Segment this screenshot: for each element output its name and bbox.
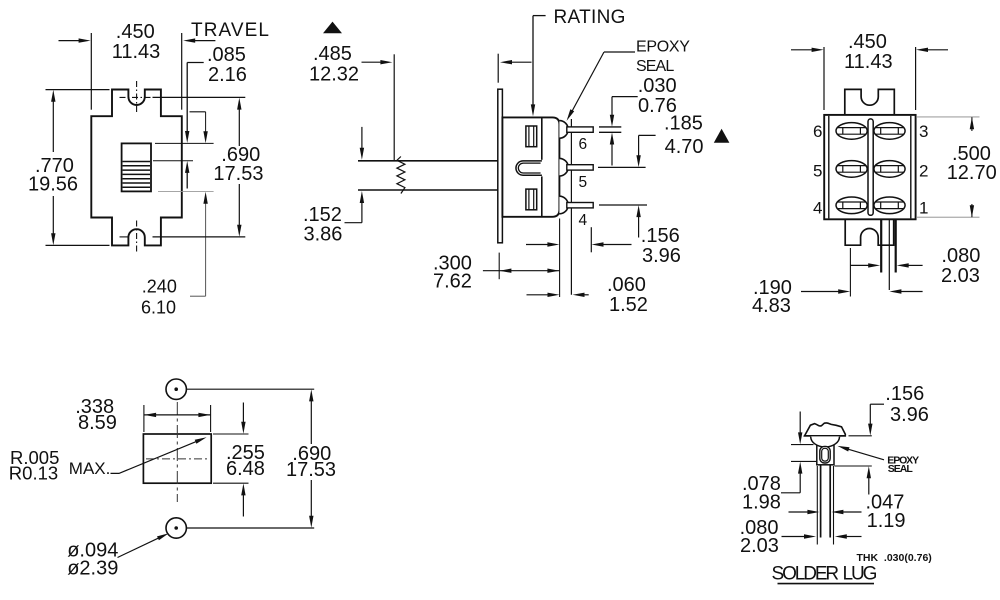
svg-text:17.53: 17.53	[213, 163, 263, 185]
svg-text:SEAL: SEAL	[636, 58, 674, 75]
hole dia leader	[118, 535, 165, 557]
handle top line	[358, 160, 498, 162]
epoxy seal bump pin5	[559, 158, 568, 176]
svg-text:RATING: RATING	[554, 7, 626, 28]
body divider line lower	[541, 176, 543, 216]
dim .485 left arrow	[362, 61, 382, 63]
dim .690 top extension	[153, 96, 246, 98]
svg-text:SOLDER: SOLDER	[772, 563, 839, 584]
svg-text:.085: .085	[207, 44, 246, 66]
mounting flange	[498, 89, 503, 243]
actuator slot inner	[518, 163, 540, 173]
svg-text:.240: .240	[142, 276, 177, 296]
dim .080L left arrow	[782, 536, 805, 538]
pin5 center extension	[598, 166, 646, 168]
hole bottom ext left	[791, 460, 817, 462]
svg-text:4: 4	[579, 212, 588, 229]
rear pin left	[880, 220, 882, 273]
dim .047 left arrow	[789, 511, 808, 513]
terminal ovals grid	[836, 123, 905, 214]
svg-text:5: 5	[813, 162, 822, 181]
svg-text:12.32: 12.32	[309, 63, 359, 85]
dim .190 right arrow	[900, 291, 923, 293]
epoxy mound	[805, 423, 846, 436]
dim .080r left arrow	[850, 264, 869, 266]
body face extension line	[559, 219, 561, 298]
dim .060 right arrow	[583, 294, 589, 296]
dim .185 upper arrow	[638, 135, 640, 155]
body divider line upper	[541, 117, 543, 159]
mound top ext right	[849, 435, 872, 437]
top hole centerline vertical	[136, 81, 138, 114]
svg-text:.156: .156	[641, 225, 680, 247]
dim .770 top extension line	[46, 89, 110, 91]
dim .030 bracket	[612, 96, 638, 98]
svg-text:4: 4	[813, 199, 822, 218]
mound base line	[804, 435, 846, 437]
hole top line right	[187, 388, 314, 390]
dim .255 upper arrow	[242, 403, 244, 423]
terminal pin 4	[567, 203, 593, 208]
dim .450r left ext	[823, 47, 825, 110]
slider bottom extension line	[158, 191, 214, 193]
svg-text:12.70: 12.70	[947, 162, 997, 184]
svg-text:5: 5	[579, 174, 588, 191]
svg-text:2.03: 2.03	[740, 535, 779, 557]
dim .030 upper arrow	[611, 97, 613, 116]
dim .240 leader tick	[190, 295, 206, 297]
dim .690 line upper	[238, 109, 240, 146]
handle bottom line	[358, 189, 498, 191]
dim .078 lower arrow	[799, 473, 801, 493]
dim .185 lower arrow	[638, 217, 640, 238]
dim .338 right ext	[210, 405, 212, 432]
cutout centerline vertical	[176, 402, 178, 502]
svg-text:R0.13: R0.13	[9, 463, 58, 484]
svg-text:1.98: 1.98	[742, 491, 781, 513]
front view switch body outline	[91, 90, 182, 246]
travel arrow	[192, 40, 215, 42]
svg-text:THK .030(0.76): THK .030(0.76)	[857, 552, 932, 564]
dim .030 lower arrow	[611, 144, 613, 166]
svg-text:11.43: 11.43	[112, 41, 161, 63]
actuator capsule	[868, 119, 873, 215]
dim .085 upper arrow	[186, 63, 188, 133]
dim .156 left arrow	[526, 244, 549, 246]
mount hole bottom circle	[166, 518, 186, 538]
contact window lower	[526, 189, 537, 210]
dim .190 left arrow	[801, 291, 840, 293]
triangle marker left	[323, 22, 342, 34]
dim .078 bracket	[781, 492, 800, 494]
svg-text:EPOXY: EPOXY	[636, 39, 690, 56]
dim .255 top ext	[213, 433, 249, 435]
travel reference line	[393, 54, 395, 161]
dim .152 lower arrow	[361, 203, 363, 223]
svg-text:4.83: 4.83	[752, 295, 791, 317]
dim .156 right arrow	[602, 244, 632, 246]
side body outline	[502, 117, 559, 216]
rear pin right	[895, 220, 897, 273]
lug hole inner	[822, 448, 829, 461]
front view slider knob rect	[122, 143, 151, 191]
contact window upper	[526, 126, 537, 147]
dim .078 upper arrow	[799, 412, 801, 434]
dim .500 upper arrow	[971, 117, 973, 131]
actuator slot outer	[516, 161, 542, 175]
rear top mounting ear	[845, 89, 895, 114]
dim .770 bottom extension line	[46, 244, 110, 246]
svg-text:6.48: 6.48	[226, 458, 265, 480]
dim .485 right ext	[497, 54, 499, 83]
rear pin centerline	[888, 220, 890, 291]
dim .300 line	[483, 270, 560, 272]
svg-text:SEAL: SEAL	[888, 463, 914, 475]
svg-text:TRAVEL: TRAVEL	[191, 20, 270, 41]
terminal pin 5	[567, 165, 593, 170]
dim .338 left ext	[143, 405, 145, 432]
dim .085 lower arrow	[186, 173, 188, 189]
dim .770 line upper	[52, 101, 54, 152]
dim .190 ext	[849, 248, 851, 297]
svg-text:7.62: 7.62	[433, 270, 472, 292]
dim .690p lower arrow	[310, 480, 312, 517]
lug shank right	[829, 465, 831, 538]
svg-text:.485: .485	[313, 43, 352, 65]
bottom hole centerline vertical	[136, 221, 138, 254]
dim .500 bottom ext	[917, 216, 980, 218]
rear bottom mounting ear	[845, 220, 894, 246]
slider mid extension line	[153, 160, 193, 162]
svg-text:11.43: 11.43	[844, 51, 893, 73]
triangle marker right	[714, 129, 730, 143]
lug hole outer	[820, 446, 830, 463]
svg-text:4.70: 4.70	[665, 136, 704, 158]
max radius leader	[111, 439, 203, 474]
dim .080L right arrow	[847, 536, 862, 538]
dim .770 line lower	[52, 196, 54, 234]
lug shank left	[820, 465, 822, 538]
svg-text:1.52: 1.52	[609, 294, 648, 316]
dim .240 elbow	[190, 111, 206, 113]
rear body outer rect	[824, 115, 915, 219]
svg-text:17.53: 17.53	[286, 459, 336, 481]
svg-text:3: 3	[919, 122, 928, 141]
slider top extension line	[155, 142, 214, 144]
dim .690p upper arrow	[310, 400, 312, 444]
dim .338 line	[144, 414, 211, 416]
handle break zigzag	[397, 157, 405, 194]
svg-text:2.16: 2.16	[208, 64, 247, 86]
svg-text:.185: .185	[664, 113, 703, 135]
lug collar	[817, 443, 834, 465]
solder lug underline	[778, 583, 875, 585]
svg-text:19.56: 19.56	[28, 174, 78, 196]
dim .450 left extension line	[90, 33, 92, 110]
hole bottom line right	[187, 527, 314, 529]
svg-text:2: 2	[919, 162, 928, 181]
dim .450r right arrow	[928, 49, 948, 51]
dim .156L bracket	[870, 403, 884, 405]
flange lower extension	[498, 253, 500, 280]
collar top ext left	[791, 444, 814, 446]
svg-text:ø2.39: ø2.39	[67, 557, 118, 579]
cutout rectangle	[143, 434, 211, 483]
svg-text:.080: .080	[941, 245, 980, 267]
epoxy seal bump pin4	[559, 196, 568, 214]
terminal pin 6	[567, 127, 593, 132]
dim .085 bracket	[187, 62, 204, 64]
dim .500 top ext	[917, 116, 980, 118]
svg-text:2.03: 2.03	[941, 265, 980, 287]
dim .450r right ext	[915, 47, 917, 110]
dim .500 lower arrow	[971, 204, 973, 217]
pin6 thickness ext top	[599, 126, 621, 128]
rating leader	[533, 15, 546, 17]
svg-text:.450: .450	[848, 31, 887, 53]
dim .152 upper arrow	[361, 127, 363, 149]
mount hole top circle	[166, 379, 186, 399]
svg-text:.450: .450	[116, 21, 155, 43]
dim .255 bottom ext	[213, 482, 249, 484]
seal dome	[811, 437, 840, 447]
dim .690 bottom extension	[153, 236, 246, 238]
svg-text:1.19: 1.19	[867, 510, 906, 532]
dim .450 left arrow	[59, 40, 81, 42]
dim .047 pointer	[868, 475, 870, 495]
dim .156L arrow	[869, 404, 871, 424]
svg-text:6.10: 6.10	[141, 297, 176, 317]
dim .255 lower arrow	[242, 495, 244, 517]
dim .450 right extension line	[181, 33, 183, 110]
svg-text:3.96: 3.96	[890, 404, 929, 426]
slider ribs	[123, 162, 150, 188]
lug ext right	[833, 466, 835, 545]
epoxy leader L	[842, 447, 884, 460]
svg-text:.156: .156	[885, 383, 924, 405]
dim .185 bracket	[639, 134, 656, 136]
pin4 center extension	[599, 204, 647, 206]
svg-text:MAX.: MAX.	[69, 459, 111, 478]
svg-text:1: 1	[919, 199, 928, 218]
top hole centerline horizontal	[120, 96, 154, 98]
dim .047 right arrow	[843, 511, 862, 513]
cutout centerline horizontal	[146, 458, 209, 460]
svg-text:3.96: 3.96	[642, 245, 681, 267]
collar bottom ext right	[835, 465, 872, 467]
dim .240 upper arrow	[205, 112, 207, 132]
svg-text:.060: .060	[607, 274, 646, 296]
lug ext left	[816, 466, 818, 545]
epoxy seal bump pin6	[559, 121, 568, 139]
svg-text:6: 6	[813, 122, 822, 141]
dim .485 right arrow	[511, 61, 532, 63]
rear body inner wall left	[828, 116, 830, 219]
svg-text:6: 6	[579, 136, 588, 153]
bottom hole centerline horizontal dash	[120, 236, 130, 238]
seal face line	[570, 119, 572, 295]
pin6 thickness ext bottom	[599, 131, 621, 133]
svg-text:3.86: 3.86	[304, 223, 343, 245]
dim .060 left arrow	[527, 294, 549, 296]
dim .152 bracket	[345, 222, 362, 224]
dim .450r left arrow	[791, 49, 812, 51]
epoxy leader	[604, 51, 635, 53]
svg-text:LUG: LUG	[843, 563, 877, 584]
rear body inner wall right	[910, 116, 912, 219]
svg-text:8.59: 8.59	[78, 412, 117, 434]
dim .690 line lower	[238, 184, 240, 226]
dim .080r right arrow	[907, 264, 923, 266]
pin end extension line	[590, 227, 592, 252]
dim .240 lower arrow line	[205, 203, 207, 296]
